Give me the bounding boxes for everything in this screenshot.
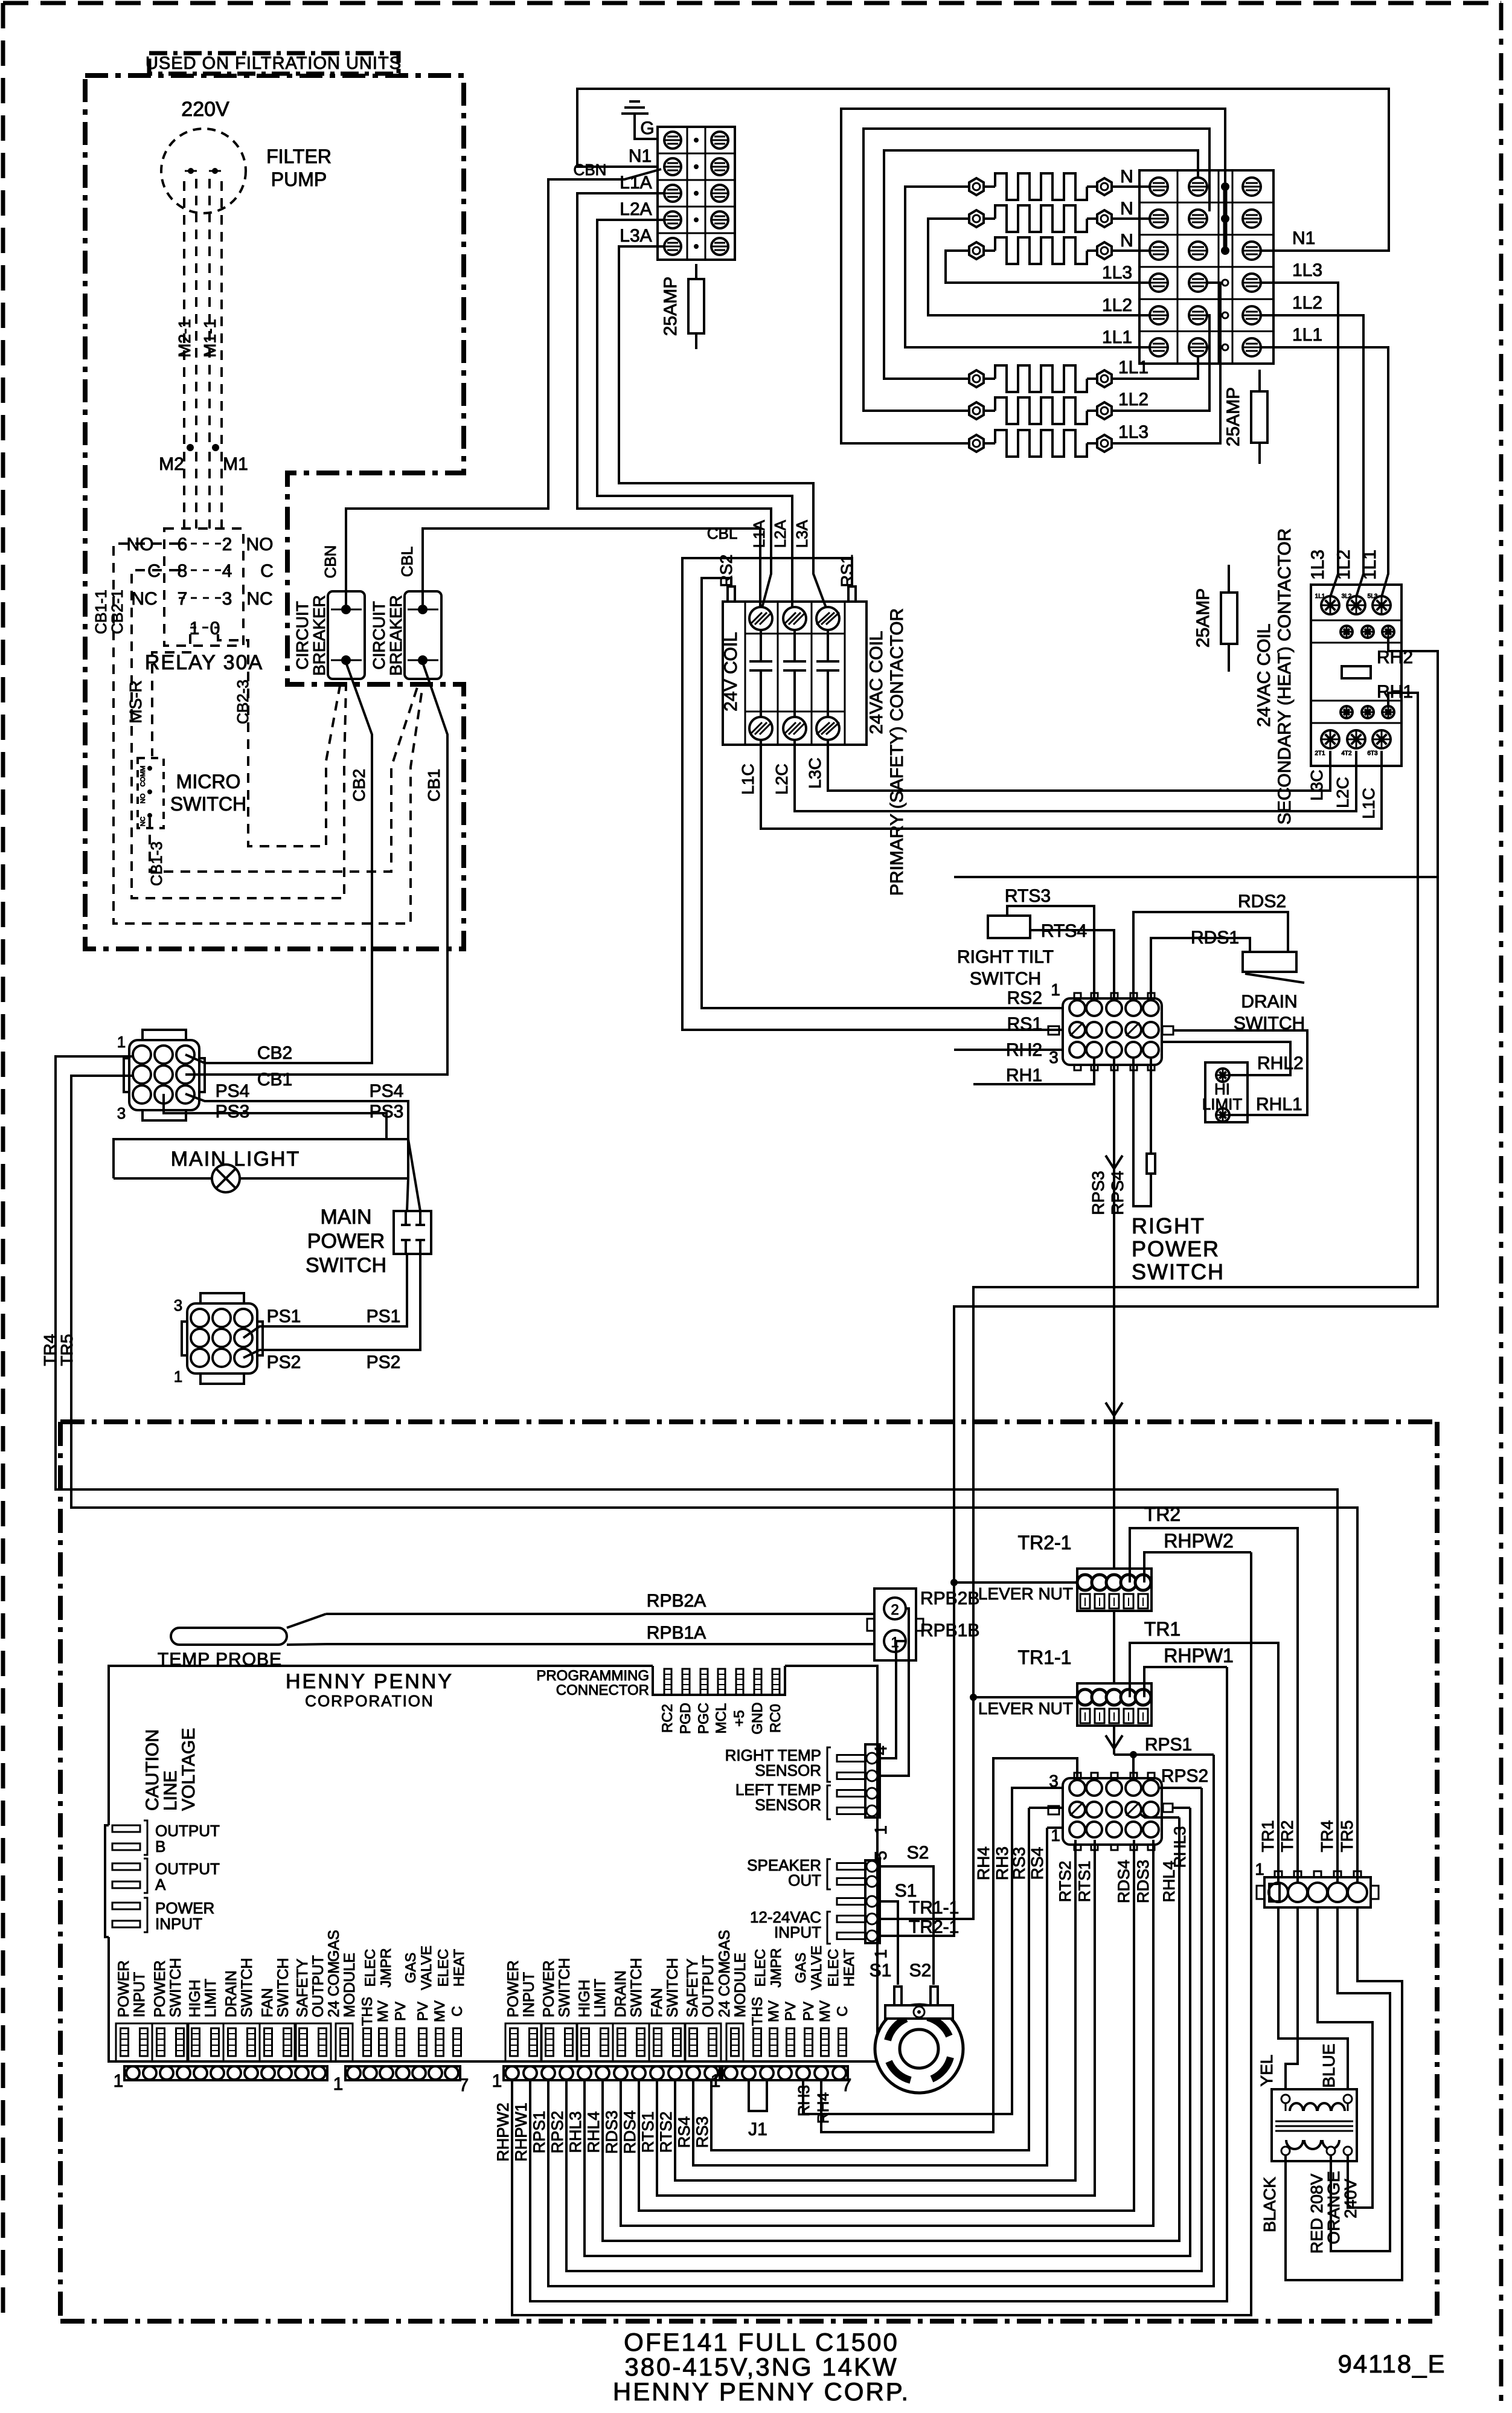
- label TR1 (strip): [1258, 1820, 1277, 1852]
- svg-text:RC2: RC2: [659, 1704, 676, 1733]
- control board outline: [109, 1666, 877, 2061]
- svg-text:RHL3: RHL3: [1171, 1826, 1189, 1868]
- svg-text:RIGHT: RIGHT: [1132, 1213, 1205, 1238]
- label RED 208V: [1307, 2174, 1326, 2254]
- header POWER SWITCH @926: [540, 1958, 577, 2061]
- svg-text:RPS2: RPS2: [548, 2111, 566, 2154]
- svg-text:INPUT: INPUT: [155, 1915, 202, 1933]
- svg-text:RH4: RH4: [814, 2092, 832, 2124]
- wire RHPW1 (nut): [1144, 1667, 1227, 1697]
- label CAUTION LINE VOLTAGE: [143, 1728, 199, 1811]
- svg-text:L2A: L2A: [771, 519, 789, 548]
- label 1 (spk conn): [871, 1949, 890, 1959]
- lower section enclosure (dash-dot): [60, 1422, 1437, 2321]
- label RPS3: [1089, 1171, 1107, 1215]
- svg-text:RH3: RH3: [993, 1846, 1011, 1880]
- label GND: [749, 1702, 766, 1734]
- svg-text:SWITCH: SWITCH: [1132, 1259, 1225, 1284]
- wire RH4 (J1): [821, 1758, 1077, 2132]
- svg-text:RS2: RS2: [1007, 988, 1042, 1008]
- svg-text:NC: NC: [246, 589, 272, 609]
- header FAN SWITCH @1105: [649, 1958, 685, 2061]
- fuse 25AMP (right): [1223, 370, 1267, 464]
- label 1L1 (element): [1118, 358, 1148, 378]
- label L2A: [620, 199, 652, 219]
- svg-text:RDS4: RDS4: [621, 2110, 639, 2154]
- label RPS2 (grid): [1161, 1766, 1208, 1786]
- terminal RS2 (primary coil): [717, 554, 735, 602]
- label L2A (at contactor): [771, 519, 789, 548]
- svg-text:RPB1A: RPB1A: [647, 1623, 706, 1643]
- main terminal block G/N1/L1A/L2A/L3A: [658, 127, 735, 260]
- wire PS4 upper: [185, 1094, 408, 1139]
- svg-text:L3A: L3A: [793, 519, 811, 548]
- svg-text:6: 6: [178, 535, 188, 554]
- label RH2: [1377, 647, 1413, 667]
- svg-text:CB1-1: CB1-1: [92, 590, 110, 634]
- label G: [640, 118, 654, 138]
- fuse 25AMP (contactor): [1193, 565, 1237, 672]
- wire TR1-1 (nut): [970, 1694, 1077, 1701]
- svg-text:PS4: PS4: [370, 1081, 404, 1101]
- svg-text:RHPW1: RHPW1: [512, 2103, 530, 2162]
- svg-text:RTS2: RTS2: [657, 2112, 675, 2153]
- wire TR4: [56, 1056, 1337, 1884]
- wire pump cable M2-1 (dashed): [184, 179, 196, 444]
- svg-text:RH2: RH2: [1006, 1040, 1042, 1060]
- svg-text:RC0: RC0: [767, 1704, 784, 1733]
- svg-text:LIMIT: LIMIT: [1202, 1095, 1243, 1113]
- label 3 (RS grid): [1049, 1048, 1059, 1067]
- wire element6 right to 1L3: [1112, 283, 1220, 443]
- svg-text:RTS1: RTS1: [1075, 1861, 1094, 1903]
- svg-text:C: C: [260, 561, 274, 581]
- svg-text:LEVER NUT: LEVER NUT: [978, 1699, 1073, 1718]
- svg-text:CBL: CBL: [707, 524, 738, 542]
- label RHL4 (riser): [1160, 1860, 1178, 1902]
- svg-text:NO: NO: [139, 793, 147, 803]
- svg-text:SAFETY: SAFETY: [684, 1958, 701, 2017]
- secondary heat contactor: [1311, 585, 1401, 766]
- label MICRO SWITCH: [170, 771, 246, 815]
- label SPEAKER OUT: [747, 1856, 821, 1889]
- wire RPS2 to grid: [1152, 1787, 1202, 1789]
- wire RS3 to grid row2: [1029, 1807, 1064, 1809]
- label CB2 (riser): [350, 769, 368, 802]
- svg-text:RH3: RH3: [795, 2085, 813, 2116]
- label L1A: [620, 173, 652, 193]
- wire transformer pin1 to BLUE: [1278, 1907, 1348, 2089]
- label L2C (right): [1333, 777, 1352, 808]
- svg-text:25AMP: 25AMP: [661, 277, 681, 336]
- wire RPS4 with inline fuse: [1133, 1059, 1155, 1206]
- connector CB (9-pin): [124, 1030, 205, 1120]
- svg-text:4: 4: [871, 1746, 890, 1755]
- svg-text:POWER: POWER: [152, 1961, 168, 2017]
- label RHL2: [1257, 1053, 1304, 1073]
- svg-text:J1: J1: [748, 2119, 767, 2139]
- svg-text:RDS4: RDS4: [1115, 1860, 1133, 1903]
- svg-text:POWER: POWER: [1132, 1236, 1220, 1261]
- lever nut upper (TR2): [1077, 1569, 1152, 1611]
- label LEVER NUT (lower): [978, 1699, 1073, 1718]
- wire RHPW2 (nut): [1144, 1552, 1251, 1582]
- label 7 (strip2): [459, 2075, 469, 2095]
- label RH1: [1377, 682, 1413, 702]
- programming connector: [664, 1669, 780, 1695]
- label CBN: [321, 545, 339, 579]
- label 1L2 left: [1102, 295, 1132, 315]
- connector OUTPUT A: [112, 1859, 220, 1894]
- label RS1 (grid): [1007, 1014, 1042, 1034]
- label 1 (RPS grid): [1051, 1826, 1060, 1845]
- svg-text:TR5: TR5: [57, 1334, 76, 1366]
- svg-text:MAIN: MAIN: [321, 1206, 372, 1229]
- svg-text:FAN: FAN: [649, 1988, 665, 2017]
- svg-text:PS3: PS3: [216, 1102, 250, 1122]
- svg-text:MV: MV: [375, 2000, 391, 2022]
- wire TR1-1 (connector): [879, 1918, 973, 1920]
- header pin PV @663: [392, 2002, 409, 2056]
- label RDS3 (riser): [1134, 1860, 1152, 1903]
- svg-text:PS4: PS4: [216, 1081, 250, 1101]
- wire RH1 net: [877, 693, 1418, 1919]
- svg-text:PROGRAMMING: PROGRAMMING: [536, 1668, 649, 1684]
- label N row2: [1120, 199, 1133, 219]
- filter pump (dashed circle): [161, 129, 246, 213]
- wire RS4 to grid row3: [1047, 1827, 1064, 1829]
- label 1L2 (element): [1118, 390, 1148, 410]
- svg-text:THS: THS: [359, 1997, 376, 2026]
- label 7 (strip4): [842, 2075, 852, 2095]
- label 1L3 left: [1102, 263, 1132, 283]
- label L1A (at contactor): [750, 519, 768, 548]
- wire CBN from breaker CB2 to N1: [346, 169, 661, 605]
- svg-text:24VAC COIL: 24VAC COIL: [867, 631, 886, 734]
- wire RHPW1: [530, 1667, 1227, 2301]
- svg-text:1: 1: [871, 1825, 890, 1835]
- svg-text:7: 7: [459, 2075, 469, 2095]
- wire RHL3 to grid tail: [1173, 1807, 1190, 1809]
- wire light to switch 1: [408, 1139, 420, 1211]
- label RPS1 (board): [530, 2111, 548, 2154]
- wire CB1-1 (dashed): [114, 544, 423, 924]
- svg-text:HEAT: HEAT: [451, 1949, 467, 1987]
- svg-text:SWITCH: SWITCH: [970, 969, 1041, 989]
- label N1 (left block): [629, 146, 652, 166]
- connector RPS grid: [1048, 1773, 1173, 1850]
- header pin MV @634: [375, 2000, 391, 2056]
- wire transformer pin2 to YEL: [1286, 1907, 1298, 2089]
- svg-text:MODULE: MODULE: [732, 1953, 749, 2017]
- svg-text:1L2: 1L2: [1102, 295, 1132, 315]
- wire RH2 net: [877, 638, 1438, 1936]
- svg-text:25AMP: 25AMP: [1193, 588, 1213, 647]
- svg-text:DRAIN: DRAIN: [1241, 992, 1297, 1012]
- label 1L1 left: [1102, 327, 1132, 347]
- svg-text:CAUTION: CAUTION: [143, 1729, 162, 1811]
- label RIGHT TILT SWITCH: [957, 947, 1054, 989]
- svg-text:CB1: CB1: [424, 769, 443, 802]
- wire PS2: [243, 1254, 420, 1358]
- svg-text:1L2: 1L2: [1334, 550, 1354, 580]
- label CIRCUIT BREAKER (right): [370, 595, 405, 676]
- svg-text:RS3: RS3: [1010, 1847, 1028, 1880]
- svg-text:MS-R: MS-R: [126, 680, 145, 724]
- svg-text:RH1: RH1: [1006, 1065, 1042, 1085]
- label +5: [731, 1710, 748, 1726]
- label PS2: [267, 1352, 401, 1372]
- wire RTS2: [675, 1840, 1075, 2180]
- label 1L2 (contactor): [1334, 550, 1354, 580]
- heating element top 1: [969, 173, 1112, 200]
- wire RHL4 jog to grid: [1133, 1809, 1179, 1817]
- circuit breaker CB1 (CBL): [405, 591, 441, 679]
- wire RPS2: [566, 1788, 1202, 2271]
- svg-text:JMPR: JMPR: [768, 1948, 784, 1987]
- svg-text:4T2: 4T2: [1341, 750, 1352, 757]
- wire RTS1: [657, 1840, 1095, 2196]
- svg-text:CBN: CBN: [321, 545, 339, 579]
- connector PS (9-pin): [182, 1293, 263, 1384]
- svg-text:RHL3: RHL3: [566, 2111, 585, 2153]
- wire S1 (connector to speaker): [879, 1901, 898, 1985]
- label RHL3 (riser): [1171, 1826, 1189, 1868]
- svg-text:7: 7: [842, 2075, 852, 2095]
- svg-text:PS3: PS3: [370, 1102, 404, 1122]
- label FILTER PUMP: [266, 146, 332, 190]
- label RIGHT TEMP SENSOR: [725, 1746, 821, 1779]
- svg-text:VOLTAGE: VOLTAGE: [179, 1728, 199, 1811]
- label RTS1 (riser): [1075, 1861, 1094, 1903]
- svg-text:1: 1: [333, 2074, 344, 2094]
- svg-text:HEAT: HEAT: [841, 1949, 857, 1987]
- svg-text:OFE141 FULL C1500: OFE141 FULL C1500: [624, 2328, 899, 2356]
- svg-text:RHL1: RHL1: [1256, 1094, 1302, 1114]
- label N row3: [1120, 231, 1133, 251]
- svg-text:SWITCH: SWITCH: [167, 1958, 184, 2017]
- svg-text:HENNY PENNY CORP.: HENNY PENNY CORP.: [613, 2377, 910, 2406]
- micro switch (dashed box): [138, 758, 164, 828]
- svg-text:S2: S2: [907, 1843, 929, 1863]
- label PS4: [216, 1081, 404, 1101]
- label TR1-1 (conn): [909, 1898, 959, 1918]
- label 1 (PS conn): [174, 1367, 182, 1386]
- wire element1 left to 1L1: [905, 187, 1151, 347]
- svg-text:1L1: 1L1: [1118, 358, 1148, 378]
- wire RS3: [711, 1808, 1029, 2150]
- label N1 right: [1292, 228, 1315, 248]
- wire MS-R (dashed): [152, 634, 190, 756]
- label TR4 (strip): [1318, 1820, 1336, 1852]
- svg-text:1: 1: [1051, 980, 1060, 999]
- label RPS2 (board): [548, 2111, 566, 2154]
- label 1 (CB conn): [117, 1033, 126, 1051]
- svg-text:MV: MV: [817, 2000, 833, 2022]
- connector OUTPUT B: [112, 1820, 220, 1856]
- label 1L3 (contactor): [1308, 550, 1328, 580]
- transformer T1: [1272, 2089, 1357, 2161]
- label RH4 (J1): [814, 2092, 832, 2124]
- svg-text:YEL: YEL: [1257, 2055, 1276, 2087]
- label MCL: [713, 1703, 729, 1734]
- label 1L3 (element): [1118, 422, 1148, 442]
- svg-text:5L3: 5L3: [1368, 593, 1378, 600]
- svg-text:GAS: GAS: [403, 1953, 419, 1984]
- label PGD: [678, 1703, 694, 1734]
- svg-text:SWITCH: SWITCH: [556, 1958, 573, 2017]
- label PS1: [267, 1306, 401, 1326]
- temp probe: [171, 1614, 326, 1645]
- svg-text:OUTPUT: OUTPUT: [310, 1955, 327, 2017]
- svg-text:1L3: 1L3: [1292, 260, 1322, 280]
- svg-text:1L1: 1L1: [1315, 593, 1325, 600]
- wire element3 right to N: [1112, 249, 1151, 252]
- header SAFETY OUTPUT @1164: [684, 1955, 721, 2061]
- main light lamp: [212, 1165, 240, 1192]
- svg-text:S2: S2: [909, 1961, 932, 1981]
- svg-text:RS4: RS4: [675, 2116, 693, 2148]
- label MS-R: [126, 680, 145, 724]
- label CB1 (conn): [257, 1070, 292, 1090]
- svg-text:CBL: CBL: [398, 547, 416, 577]
- wire RHL3: [585, 1808, 1190, 2256]
- svg-text:MCL: MCL: [713, 1703, 729, 1734]
- svg-text:ELEC: ELEC: [362, 1949, 379, 1987]
- svg-text:M2-1: M2-1: [175, 319, 194, 358]
- svg-text:1: 1: [114, 2071, 124, 2091]
- wire transformer pin3 tap: [1318, 1907, 1373, 2208]
- svg-text:RPS1: RPS1: [1145, 1735, 1192, 1755]
- terminal strip right board 12: [504, 2066, 720, 2080]
- label S1 (conn): [895, 1881, 917, 1901]
- terminal strip right board 7: [722, 2066, 848, 2080]
- node M2: [159, 444, 194, 474]
- wire N1 to right block: [577, 89, 1389, 251]
- svg-text:RPB2B: RPB2B: [920, 1589, 979, 1608]
- svg-text:3: 3: [1049, 1048, 1059, 1067]
- label YEL: [1257, 2055, 1276, 2087]
- svg-text:L2A: L2A: [620, 199, 652, 219]
- label S1 (speaker): [870, 1961, 892, 1981]
- svg-text:3: 3: [117, 1104, 126, 1122]
- svg-text:POWER: POWER: [115, 1961, 132, 2017]
- label 1 (strip4): [711, 2071, 721, 2091]
- svg-text:RDS2: RDS2: [1238, 892, 1286, 911]
- svg-text:ORANGE: ORANGE: [1324, 2171, 1343, 2244]
- svg-text:POWER: POWER: [540, 1961, 557, 2017]
- label RIGHT POWER SWITCH: [1132, 1213, 1225, 1284]
- label CORPORATION: [305, 1692, 434, 1710]
- svg-text:1L1: 1L1: [1102, 327, 1132, 347]
- svg-text:1: 1: [1051, 1826, 1060, 1845]
- label CB1-3: [147, 841, 165, 886]
- wire RPB2B: [879, 1608, 909, 1776]
- svg-text:GAS: GAS: [716, 1930, 733, 1962]
- svg-text:5: 5: [871, 1851, 890, 1860]
- svg-text:CIRCUIT: CIRCUIT: [370, 601, 388, 670]
- wire PS3 upper: [164, 1094, 386, 1139]
- title HENNY PENNY CORP.: [613, 2377, 910, 2406]
- wire TR2-1 (nut): [950, 1579, 1077, 1586]
- svg-text:INPUT: INPUT: [521, 1972, 537, 2017]
- label CB1 (riser): [424, 769, 443, 802]
- svg-text:1: 1: [492, 2071, 502, 2091]
- svg-text:TR4: TR4: [1318, 1820, 1336, 1852]
- filtration units enclosure (dash-dot): [85, 76, 464, 949]
- heating element top 2: [969, 205, 1112, 232]
- wire L2A: [597, 220, 792, 608]
- label RHPW2 (nut): [1164, 1530, 1234, 1552]
- wire CB1-3 (dashed): [150, 686, 418, 872]
- label S2 (conn): [907, 1843, 929, 1863]
- svg-text:BREAKER: BREAKER: [310, 595, 328, 676]
- wire L1A: [577, 193, 771, 608]
- svg-text:RPS4: RPS4: [1108, 1171, 1127, 1215]
- svg-text:N: N: [1120, 167, 1133, 187]
- wire CB2: [185, 663, 372, 1063]
- header DRAIN SWITCH @400: [223, 1958, 260, 2061]
- svg-text:L3C: L3C: [1307, 770, 1326, 800]
- svg-text:1: 1: [871, 1949, 890, 1959]
- svg-text:MICRO: MICRO: [176, 771, 241, 792]
- svg-text:THS: THS: [749, 1997, 766, 2026]
- svg-text:RHL4: RHL4: [585, 2111, 603, 2153]
- label RPS4: [1108, 1171, 1127, 1215]
- svg-text:DRAIN: DRAIN: [223, 1970, 240, 2017]
- svg-text:PV: PV: [801, 2002, 817, 2021]
- svg-text:RPB2A: RPB2A: [647, 1591, 706, 1611]
- terminal strip TR (5-pos): [1257, 1871, 1379, 1907]
- svg-text:220V: 220V: [181, 98, 229, 121]
- svg-text:CB1: CB1: [257, 1070, 292, 1090]
- label CIRCUIT BREAKER (left): [293, 595, 328, 676]
- wire nut1 to nut2: [1113, 1611, 1115, 1683]
- label CB2 (conn): [257, 1043, 292, 1063]
- label RHL3 (board): [566, 2111, 585, 2153]
- wire element4 right to 1L1: [1112, 355, 1198, 379]
- label 1 (strip1): [114, 2071, 124, 2091]
- label RS3 (board): [693, 2116, 711, 2148]
- wire light to switch 2: [407, 1178, 408, 1211]
- header POWER INPUT @222: [115, 1961, 152, 2061]
- label DRAIN SWITCH: [1234, 992, 1305, 1033]
- heating element bottom 2: [969, 397, 1112, 424]
- label 1 (sensor conn): [871, 1825, 890, 1835]
- svg-text:L3C: L3C: [806, 757, 824, 788]
- svg-text:1L1: 1L1: [1360, 550, 1380, 580]
- svg-text:CB2: CB2: [257, 1043, 292, 1063]
- wire TR2: [1130, 1528, 1298, 1884]
- svg-text:PS1: PS1: [267, 1306, 301, 1326]
- svg-text:L2C: L2C: [772, 763, 791, 794]
- svg-text:25AMP: 25AMP: [1223, 387, 1243, 446]
- svg-text:CONNECTOR: CONNECTOR: [556, 1682, 649, 1698]
- label CB2-1: [108, 590, 126, 634]
- header pin MV @728: [432, 2000, 448, 2056]
- svg-text:SAFETY: SAFETY: [294, 1958, 311, 2017]
- relay pin 4: [222, 561, 274, 581]
- wire element1 right to N: [1112, 185, 1151, 188]
- svg-text:RHL2: RHL2: [1257, 1053, 1304, 1073]
- svg-text:TR2-1: TR2-1: [1018, 1532, 1072, 1554]
- label ELEC HEAT (left): [435, 1949, 467, 1987]
- header FAN SWITCH @460: [259, 1958, 296, 2061]
- page border left (dashed): [1, 3, 5, 2321]
- svg-text:HIGH: HIGH: [187, 1980, 203, 2018]
- label RPB2A: [647, 1591, 706, 1611]
- primary safety contactor: [721, 602, 867, 745]
